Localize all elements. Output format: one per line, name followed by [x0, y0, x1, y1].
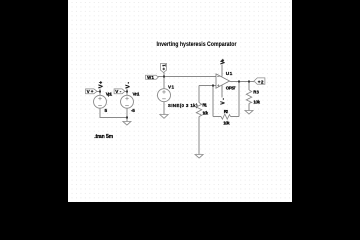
voltage source Vp1: [93, 91, 112, 114]
flag V+: [85, 89, 97, 94]
flag +2 (output net): [254, 78, 265, 85]
node feedback junction at + input: [211, 84, 213, 86]
ground (R3): [245, 111, 253, 115]
node output/R3 junction: [248, 80, 250, 82]
flag V-: [114, 89, 125, 94]
resistor R3: [246, 89, 260, 104]
svg-text:-5: -5: [130, 108, 134, 114]
svg-text:V+: V+: [220, 59, 226, 64]
svg-text:OP37: OP37: [225, 86, 235, 91]
svg-text:Vn1: Vn1: [132, 91, 139, 96]
flag (down) above input node: [160, 63, 166, 72]
ground (left sources): [122, 122, 130, 126]
svg-text:V1: V1: [168, 85, 174, 90]
svg-text:Inverting hysteresis Comparato: Inverting hysteresis Comparator: [156, 42, 237, 48]
resistor R2: [221, 109, 231, 125]
svg-text:R1: R1: [202, 102, 207, 107]
resistor R1: [196, 102, 209, 116]
svg-text:.tran 5m: .tran 5m: [94, 134, 113, 140]
svg-text:5: 5: [104, 108, 107, 114]
node Vp1 top junction: [98, 90, 100, 92]
flag W1: [145, 75, 158, 80]
ground (R1): [195, 155, 203, 159]
svg-text:10k: 10k: [253, 99, 260, 104]
node input junction: [162, 75, 164, 77]
node Vn1 top junction: [125, 90, 127, 92]
wire: all straight wire segments: [96, 64, 254, 154]
svg-text:+2: +2: [257, 79, 263, 84]
voltage source V1: [157, 85, 198, 109]
voltage source Vn1: [120, 91, 139, 114]
svg-text:+1: +1: [161, 64, 166, 71]
title text: [156, 42, 237, 48]
svg-text:W1: W1: [147, 75, 154, 80]
svg-text:10k: 10k: [202, 111, 208, 116]
svg-text:SINE(0 3 1k): SINE(0 3 1k): [167, 103, 197, 108]
svg-text:R3: R3: [253, 89, 259, 94]
svg-text:U1: U1: [225, 71, 232, 77]
node output/feedback junction: [238, 80, 240, 82]
svg-text:V+: V+: [98, 80, 104, 88]
ground (V1): [159, 115, 167, 119]
op-amp U1: [216, 71, 236, 91]
svg-text:V+: V+: [86, 89, 93, 94]
svg-text:R2: R2: [223, 109, 228, 114]
svg-text:10k: 10k: [223, 120, 230, 125]
node bottom rail junction: [125, 116, 127, 118]
svg-text:V-: V-: [125, 82, 131, 89]
svg-text:Vp1: Vp1: [105, 91, 112, 96]
